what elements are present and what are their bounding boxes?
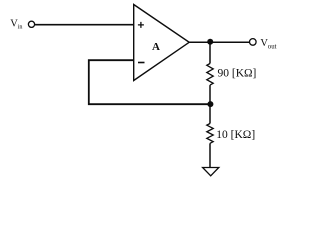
svg-text:10 [KΩ]: 10 [KΩ] bbox=[216, 129, 255, 141]
svg-text:out: out bbox=[268, 43, 277, 50]
svg-text:in: in bbox=[18, 24, 23, 31]
svg-text:90 [KΩ]: 90 [KΩ] bbox=[218, 68, 257, 80]
svg-text:A: A bbox=[152, 41, 160, 53]
